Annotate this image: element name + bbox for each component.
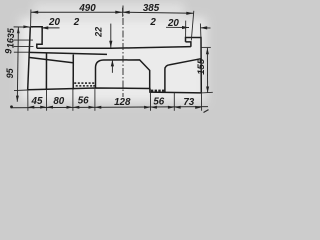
dotted strip 2 xyxy=(151,90,165,92)
right row2 outer arrow xyxy=(200,27,210,29)
arrow to block edge xyxy=(23,25,29,28)
ext right block left edge xyxy=(185,21,187,38)
dotted strip 1 xyxy=(74,82,95,86)
svg-text:9: 9 xyxy=(3,49,13,54)
arrowhead 490 left xyxy=(31,11,38,14)
chain ticks xyxy=(14,39,33,41)
right end block xyxy=(186,38,202,93)
line A second surface xyxy=(29,52,107,54)
extension line 385 right xyxy=(191,11,194,41)
155 top tick xyxy=(201,46,211,48)
arrowheads at centerline xyxy=(115,11,122,14)
svg-text:155: 155 xyxy=(196,58,207,75)
svg-text:2: 2 xyxy=(149,17,156,28)
155 bottom extension xyxy=(201,91,213,94)
dim line 385 xyxy=(123,12,194,13)
dim 22 lower arrow xyxy=(111,60,113,73)
svg-text:2: 2 xyxy=(73,17,80,28)
svg-text:95: 95 xyxy=(5,67,15,78)
svg-text:22: 22 xyxy=(93,27,103,38)
svg-text:80: 80 xyxy=(53,96,64,107)
bottom dim line xyxy=(11,107,209,108)
ext right block right edge xyxy=(199,24,202,38)
top surface xyxy=(37,47,191,49)
bottom extension lines xyxy=(28,89,202,111)
bottom arrowheads xyxy=(28,106,202,109)
right 155 dim line xyxy=(206,48,208,93)
svg-text:16: 16 xyxy=(6,37,16,48)
bottom outline xyxy=(28,88,202,93)
dim 22 upper arrow xyxy=(110,24,112,48)
paper background xyxy=(0,0,218,117)
svg-text:128: 128 xyxy=(114,97,131,108)
right row2 dim line xyxy=(166,26,189,28)
right foot xyxy=(165,59,201,93)
dim line 490 xyxy=(31,11,123,13)
svg-text:20: 20 xyxy=(48,17,60,28)
chain top up-arrow xyxy=(17,27,20,33)
svg-text:35: 35 xyxy=(6,27,16,38)
center trapezoid foot xyxy=(96,60,150,89)
foot divider 45/80 xyxy=(45,53,47,90)
svg-text:20: 20 xyxy=(167,18,179,29)
right block notch xyxy=(186,42,191,47)
centerline xyxy=(122,6,124,98)
svg-text:385: 385 xyxy=(143,3,160,14)
left raised block xyxy=(30,27,42,48)
chain bottom down-arrow xyxy=(16,96,19,102)
svg-text:45: 45 xyxy=(31,96,43,107)
svg-text:490: 490 xyxy=(78,3,96,14)
left 20 dim tail line xyxy=(41,27,59,29)
bottom-left extension xyxy=(14,89,28,92)
line B sloping inner edge xyxy=(29,57,73,62)
svg-text:56: 56 xyxy=(153,97,164,108)
left chain dim line xyxy=(17,27,18,102)
centerline tick xyxy=(122,8,124,17)
extension line 490 left xyxy=(30,10,32,27)
left end blob xyxy=(10,105,13,108)
left edge xyxy=(28,27,31,90)
left row2 tick line xyxy=(14,26,33,28)
arrowhead 385 right xyxy=(186,12,193,15)
left foot right edge xyxy=(72,55,74,90)
svg-text:73: 73 xyxy=(183,97,194,108)
stray dash bottom right xyxy=(204,110,209,113)
svg-text:56: 56 xyxy=(78,95,89,106)
